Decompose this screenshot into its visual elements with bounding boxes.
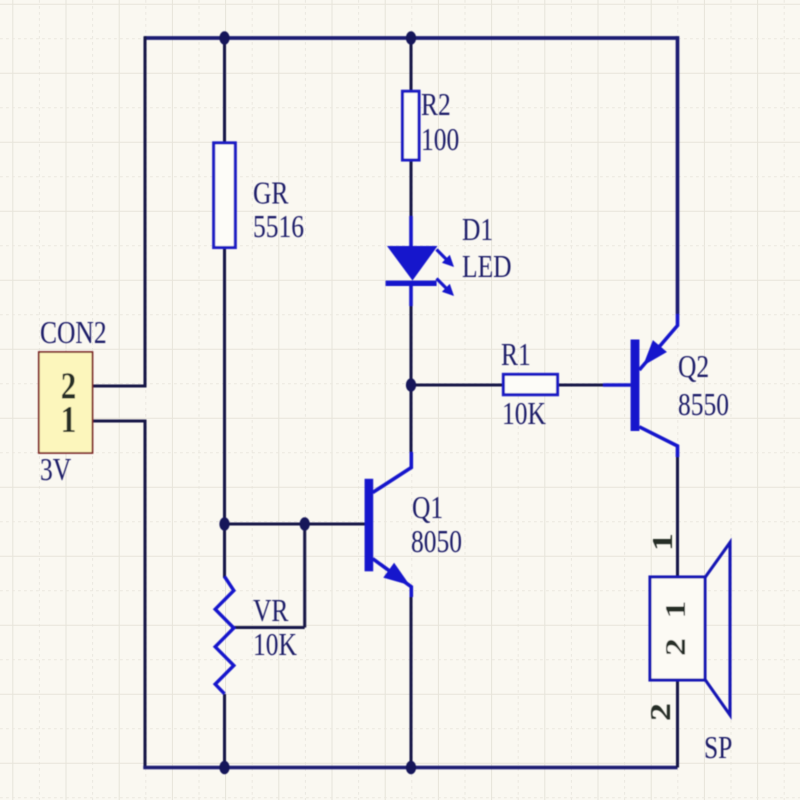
svg-text:D1: D1: [462, 213, 493, 248]
svg-text:R1: R1: [501, 338, 531, 373]
svg-text:LED: LED: [462, 250, 512, 285]
svg-text:100: 100: [421, 123, 459, 158]
svg-text:1: 1: [660, 601, 692, 619]
svg-text:R2: R2: [421, 88, 451, 123]
svg-text:10K: 10K: [502, 397, 546, 432]
svg-text:CON2: CON2: [40, 316, 107, 351]
svg-text:2: 2: [645, 703, 677, 721]
svg-text:1: 1: [647, 533, 679, 551]
svg-text:GR: GR: [253, 176, 289, 211]
svg-text:1: 1: [61, 398, 77, 441]
svg-text:3V: 3V: [40, 453, 71, 488]
svg-text:10K: 10K: [253, 628, 297, 663]
svg-text:5516: 5516: [253, 210, 304, 245]
svg-text:8050: 8050: [411, 525, 462, 560]
svg-text:2: 2: [660, 638, 692, 656]
svg-text:VR: VR: [253, 594, 289, 629]
svg-text:SP: SP: [704, 731, 732, 766]
svg-text:Q2: Q2: [678, 350, 709, 385]
svg-text:8550: 8550: [678, 388, 729, 423]
svg-text:Q1: Q1: [412, 491, 443, 526]
